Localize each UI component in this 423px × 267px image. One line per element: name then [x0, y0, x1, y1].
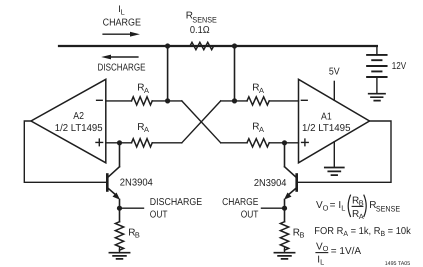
wire A1 minus input stub [269, 100, 298, 102]
svg-text:OUT: OUT [150, 210, 168, 221]
arrow discharge direction line [110, 56, 138, 58]
transistor Q2 2N3904 base bar [295, 175, 298, 191]
transistor Q1 2N3904 base bar [106, 175, 109, 191]
battery B1 12V plates [367, 55, 387, 77]
wire diagonal bottom-left to top-right [182, 101, 221, 143]
formula fraction bar RB/RA [352, 205, 364, 207]
svg-text:A: A [144, 86, 149, 95]
svg-text:1/2 LT1495: 1/2 LT1495 [55, 123, 103, 134]
node dot A1 plus input [282, 140, 287, 145]
wire battery drop from top rail [376, 46, 378, 55]
svg-text:CHARGE: CHARGE [103, 17, 142, 28]
wire diagonal top-left to bottom-right [182, 101, 221, 143]
svg-text:2N3904: 2N3904 [120, 178, 153, 189]
wire A1 output right, down and to Q2 base [298, 121, 391, 182]
formula parenthesis right [364, 195, 367, 217]
arrowhead discharge left [101, 55, 111, 60]
wire vertical drop left from top rail to RA junction [167, 46, 169, 101]
node dot RA top-left junction [165, 98, 170, 103]
svg-text:0.1Ω: 0.1Ω [190, 25, 210, 36]
svg-text:5V: 5V [329, 67, 340, 78]
wire top-left rail to crossover [152, 100, 182, 102]
svg-text:SENSE: SENSE [192, 15, 216, 24]
svg-text:DISCHARGE: DISCHARGE [150, 197, 203, 208]
svg-text:SENSE: SENSE [376, 204, 400, 213]
transistor Q2 collector / emitter legs [285, 167, 297, 196]
resistor RA bottom-left [132, 139, 153, 147]
wire RB right to ground [284, 247, 286, 252]
node dot charge out [282, 206, 287, 211]
op-amp A2 triangle [31, 79, 106, 163]
wire A2 minus input stub [106, 100, 132, 102]
arrowhead Q2 emitter [284, 193, 292, 200]
wire A1 ground pin [333, 142, 335, 167]
pin minus A2 [97, 99, 103, 101]
svg-text:A: A [144, 125, 149, 134]
wire RB left to ground [119, 247, 121, 252]
svg-text:1495 TA05: 1495 TA05 [385, 261, 411, 267]
wire A1 5V supply pin [333, 81, 335, 100]
node dot A2 plus input [117, 140, 122, 145]
node dot top rail right [232, 43, 237, 48]
svg-text:A: A [259, 125, 264, 134]
formula parenthesis left [348, 195, 351, 217]
arrowhead Q1 emitter [113, 193, 121, 200]
wire A2 output down and to Q1 base [24, 121, 106, 182]
svg-text:L: L [320, 258, 324, 267]
ground Q1 emitter [109, 253, 129, 259]
ground Q2 emitter [274, 253, 294, 259]
resistor RB left (vertical) [115, 222, 123, 250]
node dot discharge out [117, 206, 122, 211]
svg-text:A1: A1 [321, 112, 332, 123]
node dot RA top-right junction [232, 98, 237, 103]
svg-text:1/2 LT1495: 1/2 LT1495 [302, 123, 351, 134]
resistor RB right (vertical) [280, 222, 288, 250]
svg-text:L: L [121, 7, 125, 16]
resistor RA bottom-right [247, 139, 269, 147]
svg-text:A: A [359, 212, 364, 221]
svg-text:12V: 12V [392, 61, 407, 72]
wire bottom-right rail from crossover [221, 142, 247, 144]
wire discharge out stub [120, 207, 144, 209]
wire battery to ground stem [376, 77, 378, 93]
wire Q2 emitter down to RB [284, 200, 286, 222]
svg-text:2N3904: 2N3904 [254, 178, 287, 189]
pin minus A1 [301, 99, 307, 101]
wire A2 plus input stub [106, 142, 132, 144]
wire Q1 emitter down to RB [119, 200, 121, 222]
resistor RSENSE 0.1 ohm [190, 42, 214, 49]
wire A1 plus input stub [269, 142, 298, 144]
svg-text:L: L [341, 203, 345, 212]
arrowhead charge right [130, 32, 140, 37]
resistor RA top-left [132, 97, 153, 105]
wire bottom-left rail to crossover [152, 142, 182, 144]
svg-text:=: = [330, 200, 336, 211]
svg-text:O: O [323, 203, 329, 212]
wire Q1 collector from A2 plus node [119, 143, 121, 167]
formula VO = IL (RB/RA) RSENSE [316, 195, 400, 221]
wire vertical drop right from top rail to RA junction [234, 46, 236, 101]
wire Q2 collector from A1 plus node [284, 143, 286, 167]
ground A1 [325, 168, 344, 176]
svg-text:OUT: OUT [241, 210, 259, 221]
arrow charge direction line [103, 33, 131, 35]
svg-text:A2: A2 [73, 111, 84, 122]
svg-text:= 1V/A: = 1V/A [331, 246, 362, 257]
node dot top rail left [165, 43, 170, 48]
svg-text:B: B [300, 231, 305, 240]
resistor RA top-right [247, 97, 269, 105]
pin plus A1 [302, 139, 309, 146]
wire charge out stub [262, 207, 285, 209]
svg-text:A: A [259, 86, 264, 95]
pin plus A2 [96, 139, 103, 146]
transistor Q1 collector / emitter legs [107, 167, 119, 196]
svg-text:FOR RA = 1k, RB = 10k: FOR RA = 1k, RB = 10k [314, 226, 411, 238]
svg-text:O: O [323, 244, 329, 253]
op-amp A1 triangle [299, 79, 370, 163]
svg-text:DISCHARGE: DISCHARGE [98, 62, 146, 73]
ground battery [369, 94, 385, 101]
wire top-right rail from crossover through junction [221, 100, 247, 102]
wire main top rail [59, 45, 377, 47]
svg-text:CHARGE: CHARGE [222, 197, 259, 208]
svg-text:B: B [135, 231, 140, 240]
